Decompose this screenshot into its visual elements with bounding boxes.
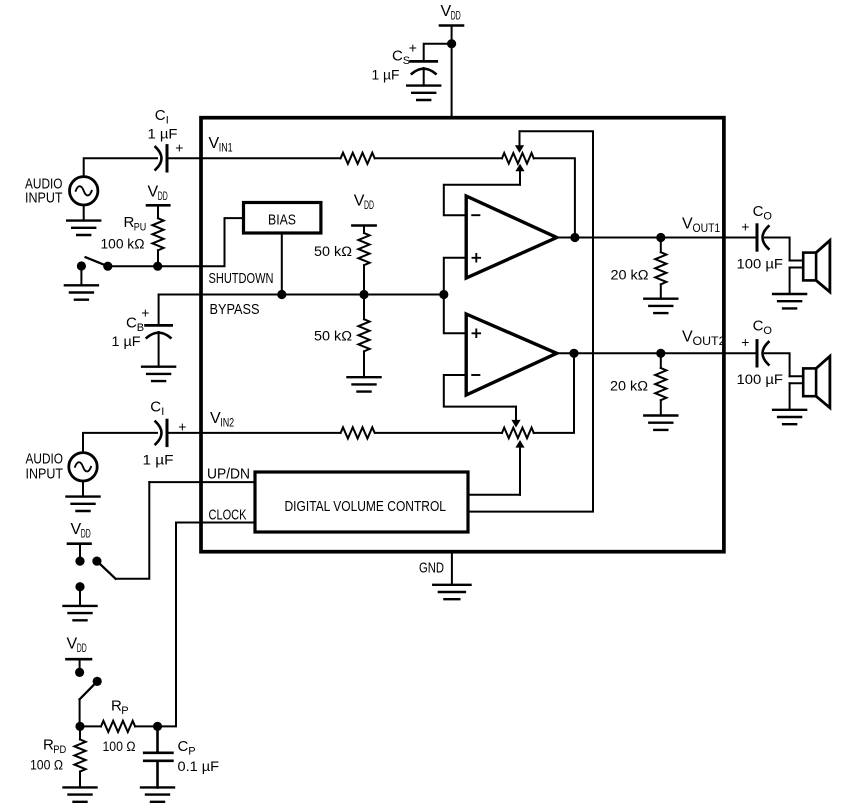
wire CI to VIN1 pin — [169, 157, 341, 159]
wire op-amp2 output VOUT2 — [557, 352, 756, 354]
capacitor CP label — [178, 738, 196, 758]
node junction 20k/output1 — [656, 233, 665, 242]
VDD bar divider — [352, 224, 375, 227]
resistor RPU — [152, 205, 163, 266]
node junction divider/bypass — [359, 290, 368, 299]
resistor RPD label — [43, 737, 66, 757]
capacitor CP — [144, 726, 172, 787]
resistor VIN1 input — [341, 153, 375, 164]
resistor VIN2 input — [341, 427, 375, 438]
op-amp U1A minus sign — [472, 214, 479, 216]
speaker LS1 — [790, 240, 830, 292]
op-amp U1B minus sign — [472, 374, 479, 376]
resistor RP — [80, 721, 158, 732]
node junction bypass/op-amp inputs — [439, 290, 448, 299]
svg-text:C: C — [753, 203, 764, 220]
svg-text:DD: DD — [158, 191, 168, 203]
svg-text:C: C — [392, 48, 403, 65]
svg-text:1 µF: 1 µF — [143, 453, 174, 468]
node junction BIAS/bypass — [277, 290, 286, 299]
pot P1 wiper arrow bottom — [515, 164, 524, 185]
potentiometer P2 — [502, 428, 534, 439]
svg-text:PU: PU — [134, 222, 147, 234]
wire op-amp1 output VOUT1 — [557, 237, 756, 239]
capacitor CI ch1 label — [155, 107, 169, 127]
pin GND wire — [451, 552, 453, 585]
node junction RPU/shutdown — [153, 262, 162, 271]
wire CO1 to speaker — [765, 238, 790, 261]
svg-text:IN1: IN1 — [219, 143, 233, 155]
capacitor CI channel2 — [156, 420, 168, 445]
wire BIAS to bypass node — [281, 233, 283, 295]
svg-text:+: + — [741, 334, 749, 350]
resistor 50k upper — [358, 226, 369, 295]
capacitor CS label — [392, 48, 410, 68]
node VDD for switch S2 — [71, 521, 91, 541]
ground RPD — [64, 787, 97, 801]
svg-text:DD: DD — [81, 529, 91, 541]
switch S1 shutdown — [77, 257, 113, 271]
resistor RPD — [74, 726, 85, 787]
ground speaker1 — [773, 294, 806, 308]
svg-text:+: + — [741, 219, 749, 235]
switch S2 — [75, 557, 115, 579]
svg-text:PD: PD — [53, 744, 66, 756]
ground CS — [407, 86, 440, 100]
node VDD supply label — [441, 3, 461, 23]
VDD bar switch S3 — [67, 658, 92, 661]
wire P1 to output feedback — [534, 158, 575, 237]
svg-text:P: P — [188, 746, 195, 758]
source V1 — [70, 177, 98, 205]
svg-text:OUT1: OUT1 — [693, 223, 721, 235]
wire op-amp2 minus to P2 wiper — [444, 375, 516, 407]
ground CP — [141, 787, 174, 801]
resistor RP label — [111, 698, 129, 718]
op-amp U1A — [466, 196, 557, 278]
wire VDD to box top — [451, 26, 453, 117]
pot P2 wiper arrow bottom — [515, 440, 524, 495]
svg-text:C: C — [753, 318, 764, 335]
wire DVC to P2 wiper — [468, 494, 520, 496]
wire bypass line — [159, 294, 444, 296]
svg-text:100 Ω: 100 Ω — [30, 758, 63, 773]
svg-text:100 µF: 100 µF — [737, 257, 784, 272]
svg-text:IN2: IN2 — [220, 418, 234, 430]
svg-text:1 µF: 1 µF — [148, 127, 178, 142]
svg-text:O: O — [763, 210, 772, 222]
block DIGITAL VOLUME CONTROL — [255, 472, 468, 532]
svg-text:+: + — [409, 40, 417, 56]
wire VIN2 trace — [169, 432, 503, 434]
wire P1 wiper to DVC rail — [468, 131, 593, 511]
svg-text:AUDIO: AUDIO — [26, 452, 64, 468]
wire VDD bar to contact — [79, 544, 81, 561]
node junction VDD/CS — [447, 39, 456, 48]
wire shutdown line — [108, 218, 244, 266]
VDD bar RPU — [147, 204, 169, 207]
svg-text:C: C — [155, 107, 166, 124]
svg-text:+: + — [175, 140, 183, 156]
source V2 — [69, 453, 97, 481]
svg-text:INPUT: INPUT — [25, 191, 63, 207]
svg-text:GND: GND — [419, 561, 444, 577]
wire speaker2 to ground — [789, 383, 791, 410]
op-amp U1B — [466, 314, 557, 395]
ground speaker2 — [773, 410, 806, 424]
wire P1 lower wiper to op-amp1 minus — [444, 185, 520, 216]
potentiometer P1 — [502, 153, 534, 164]
svg-text:DD: DD — [451, 11, 461, 23]
block BIAS — [244, 203, 321, 234]
wire switch S3 to RP node — [79, 699, 81, 726]
svg-text:50 kΩ: 50 kΩ — [314, 329, 352, 344]
svg-text:100 Ω: 100 Ω — [103, 739, 136, 754]
svg-text:BYPASS: BYPASS — [210, 302, 260, 318]
wire CS to ground — [423, 68, 425, 86]
VDD bar switch S2 — [68, 542, 91, 545]
svg-text:O: O — [763, 325, 772, 337]
ground GND pin — [433, 585, 470, 599]
resistor RPU label — [124, 214, 147, 234]
IC outline box — [201, 118, 724, 552]
svg-text:I: I — [166, 115, 169, 127]
pot P2 wiper arrow top — [511, 407, 520, 428]
svg-text:B: B — [137, 322, 144, 334]
svg-text:1 µF: 1 µF — [112, 334, 141, 349]
ground 20k ch1 — [644, 299, 677, 313]
svg-text:20 kΩ: 20 kΩ — [611, 268, 649, 283]
resistor 50k lower — [358, 295, 369, 378]
pin label VIN1 — [209, 135, 233, 155]
wire VDD bar to contact S3 — [79, 659, 81, 672]
svg-text:C: C — [150, 399, 161, 416]
capacitor CI channel1 — [156, 146, 168, 171]
svg-text:I: I — [161, 406, 164, 418]
wire bypass to op-amp2 plus input — [444, 295, 466, 334]
VDD rail bar — [440, 24, 463, 27]
svg-text:V: V — [682, 329, 693, 346]
ground source2 — [67, 497, 100, 511]
op-amp U1B plus sign — [473, 330, 481, 338]
wire source2 to ground — [82, 481, 84, 497]
audio input source 1 label — [25, 177, 63, 207]
svg-text:C: C — [178, 738, 189, 755]
resistor 20k channel2 — [655, 353, 666, 415]
svg-text:V: V — [682, 216, 693, 233]
capacitor CO ch2 label — [753, 318, 773, 337]
wire P2 to output feedback — [534, 353, 574, 433]
wire CO2 to speaker — [765, 353, 790, 376]
svg-text:0.1 µF: 0.1 µF — [178, 759, 220, 774]
svg-text:1 µF: 1 µF — [372, 68, 400, 83]
svg-text:SHUTDOWN: SHUTDOWN — [209, 271, 274, 287]
op-amp U1A plus sign — [473, 254, 481, 262]
svg-text:+: + — [178, 419, 186, 435]
capacitor CI ch2 label — [150, 399, 164, 419]
svg-text:+: + — [141, 305, 149, 321]
wire RP node to CLOCK — [158, 523, 177, 727]
ground 20k ch2 — [644, 416, 677, 430]
svg-text:DIGITAL VOLUME CONTROL: DIGITAL VOLUME CONTROL — [285, 499, 447, 515]
svg-text:DD: DD — [77, 643, 87, 655]
ground switch S2 — [64, 606, 97, 620]
svg-text:CLOCK: CLOCK — [209, 508, 247, 524]
node junction 20k/output2 — [656, 349, 665, 358]
node junction RP/CP — [153, 722, 162, 731]
resistor 20k channel1 — [655, 238, 666, 299]
wire CB to ground — [158, 332, 160, 367]
svg-text:S: S — [403, 55, 410, 67]
svg-text:100 µF: 100 µF — [737, 372, 784, 387]
capacitor CB — [146, 325, 172, 337]
node VDD for switch S3 — [67, 636, 87, 656]
wire source1 to CI — [84, 158, 157, 176]
capacitor CO channel1 — [757, 225, 769, 250]
capacitor CO ch1 label — [753, 203, 773, 222]
svg-text:OUT2: OUT2 — [693, 336, 726, 348]
node junction feedback/output1 — [570, 233, 579, 242]
node junction feedback/output2 — [569, 349, 578, 358]
capacitor CO channel2 — [757, 341, 769, 366]
wire bypass to CB — [158, 295, 160, 325]
wire switch S2 to UP/DN — [116, 482, 150, 579]
ground switch S1 — [65, 285, 98, 299]
svg-text:BIAS: BIAS — [268, 213, 296, 229]
svg-text:P: P — [121, 705, 128, 717]
wire contact to ground — [79, 587, 81, 606]
wire VDD junction to CS — [424, 44, 452, 61]
svg-text:UP/DN: UP/DN — [207, 467, 250, 483]
svg-text:INPUT: INPUT — [26, 467, 64, 483]
capacitor CB label — [126, 315, 144, 335]
pin label VIN2 — [210, 410, 234, 430]
ground source1 — [67, 221, 100, 235]
svg-text:20 kΩ: 20 kΩ — [610, 379, 648, 394]
svg-text:DD: DD — [364, 200, 374, 212]
node junction RPD/RP — [75, 722, 84, 731]
switch S2 ground contact — [75, 582, 84, 591]
node VDD for divider — [354, 193, 374, 213]
svg-text:C: C — [126, 315, 137, 332]
wire CLOCK line — [176, 522, 255, 524]
wire source2 to CI2 — [83, 433, 157, 453]
pot P1 wiper arrow top — [515, 131, 524, 153]
audio input source 2 label — [26, 452, 64, 483]
ground divider — [348, 377, 381, 391]
wire switch S1 to ground — [80, 266, 82, 285]
capacitor CS — [411, 61, 437, 73]
svg-text:100 kΩ: 100 kΩ — [101, 237, 145, 252]
svg-text:50 kΩ: 50 kΩ — [314, 244, 352, 259]
wire op-amp1 plus input — [444, 258, 466, 295]
ground CB — [142, 367, 175, 381]
wire VIN1 trace to pot — [375, 157, 502, 159]
speaker LS2 — [790, 356, 830, 408]
pin label VOUT2 — [682, 329, 726, 349]
node VDD for RPU — [148, 184, 168, 204]
wire speaker1 to ground — [789, 268, 791, 295]
pin label VOUT1 — [682, 216, 720, 236]
wire source1 to ground — [83, 205, 85, 221]
switch S3 — [75, 668, 102, 699]
wire UP/DN line — [149, 481, 255, 483]
